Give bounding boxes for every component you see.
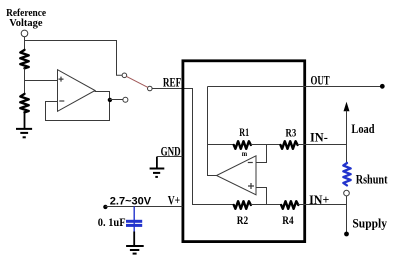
- load arrow: [346, 109, 348, 113]
- ground: divider: [16, 129, 32, 137]
- capacitor C1 plates (blue): [126, 220, 142, 227]
- wire: divider bottom to ground: [24, 113, 26, 129]
- wire: R3 to IN- line: [298, 144, 347, 146]
- wire: load line lower: [346, 196, 348, 234]
- node: U1 output junction: [108, 98, 112, 102]
- svg-text:R4: R4: [282, 215, 293, 227]
- terminal: reference voltage input: [21, 30, 28, 37]
- wire: divider middle: [24, 69, 26, 94]
- wire: U1 output: [46, 91, 110, 121]
- switch pole contact: [148, 86, 153, 91]
- label Reference Voltage: [6, 7, 46, 29]
- svg-text:Voltage: Voltage: [9, 17, 42, 29]
- IC boundary box: [183, 61, 305, 242]
- wire: terminal to divider top: [24, 37, 26, 50]
- svg-text:R2: R2: [237, 215, 249, 227]
- wire: capacitor bottom lead: [133, 232, 135, 246]
- wire: internal output vertical: [208, 87, 217, 176]
- wire: R1 feedback row: [208, 144, 235, 146]
- op-amp U2 (inside IC, pointing left): [217, 156, 257, 195]
- svg-text:IN-: IN-: [310, 130, 328, 145]
- svg-text:R1: R1: [239, 127, 249, 139]
- node: supply input terminal: [103, 205, 107, 209]
- wire: OUT line: [208, 86, 383, 88]
- svg-text:IN+: IN+: [309, 192, 329, 207]
- resistor R1: [234, 141, 251, 149]
- svg-text:0. 1uF: 0. 1uF: [98, 215, 126, 229]
- wire: GND pin: [157, 156, 183, 158]
- wire: V+ rail: [105, 206, 182, 208]
- wire: reference top rail to switch: [25, 41, 122, 76]
- wire: load line upper: [346, 111, 348, 163]
- wire: inverting input tap: [256, 145, 267, 163]
- wire: output junction to switch lower contact: [110, 99, 123, 101]
- resistor Rshunt (blue): [343, 163, 350, 185]
- resistor: divider lower: [20, 94, 28, 112]
- svg-text:Supply: Supply: [352, 215, 387, 230]
- wire: R2 to R4 segment: [251, 204, 282, 206]
- svg-text:REF: REF: [163, 76, 182, 90]
- ground: capacitor: [126, 246, 144, 254]
- wire: R1 to R3 segment: [251, 144, 281, 146]
- svg-text:2.7~30V: 2.7~30V: [110, 196, 152, 208]
- resistor R3: [281, 141, 298, 149]
- resistor R2: [234, 201, 251, 209]
- node: OUT terminal dot: [380, 84, 385, 89]
- svg-text:OUT: OUT: [311, 73, 330, 88]
- svg-text:Rshunt: Rshunt: [356, 172, 388, 187]
- wire: capacitor top lead: [133, 207, 135, 233]
- svg-text:Load: Load: [351, 121, 375, 136]
- svg-text:m: m: [242, 149, 248, 158]
- op-amp U1 (reference buffer): [58, 70, 96, 112]
- switch contact: lower throw: [123, 97, 128, 102]
- node: sense circle: [344, 190, 350, 196]
- wire: GND stem: [156, 157, 158, 168]
- resistor R4: [281, 201, 298, 209]
- wire: switch pole to REF pin and down to R2: [152, 89, 234, 205]
- wire: divider tap to op-amp + input: [25, 80, 58, 82]
- resistor: divider upper: [20, 50, 28, 68]
- wire: R4 to IN+ line: [298, 204, 347, 206]
- svg-text:V+: V+: [168, 194, 180, 208]
- ground: GND pin: [150, 169, 165, 177]
- switch contact: upper throw: [122, 73, 127, 78]
- switch blade (red): [126, 76, 147, 87]
- wire: non-inverting input tap: [256, 188, 267, 205]
- svg-text:R3: R3: [286, 127, 297, 139]
- node: supply terminal dot: [344, 232, 349, 237]
